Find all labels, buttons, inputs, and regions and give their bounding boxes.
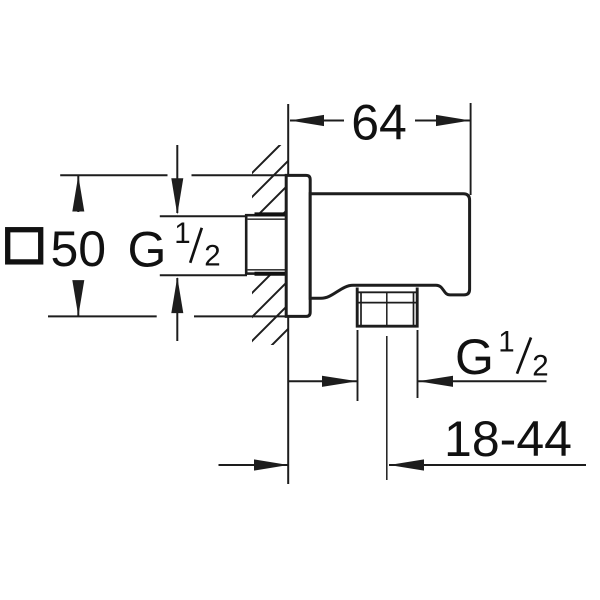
boss dimension line lower: [176, 278, 178, 341]
svg-text:18-44: 18-44: [444, 411, 572, 467]
boss dimension arrow down: [171, 178, 183, 214]
threaded boss (G 1/2 side connector): [246, 214, 288, 273]
svg-text:1: 1: [174, 217, 190, 250]
svg-text:G: G: [128, 221, 167, 277]
label G 1/2 left: [128, 217, 221, 277]
boss dimension top extension: [160, 215, 247, 217]
svg-text:2: 2: [204, 239, 220, 272]
dimension 64 arrow left: [290, 115, 324, 126]
dimension 18-44 arrow left: [254, 459, 288, 470]
G 1/2 outlet arrow left: [322, 376, 357, 387]
fitting body: [310, 194, 469, 298]
wall face line: [287, 104, 289, 484]
svg-text:G: G: [455, 329, 494, 385]
svg-text:64: 64: [351, 95, 407, 151]
boss dimension bottom extension: [160, 274, 247, 276]
G 1/2 outlet dimension line: [288, 380, 546, 382]
wall hatching: [245, 135, 290, 396]
escutcheon flange: [286, 175, 310, 316]
svg-text:50: 50: [51, 221, 107, 277]
svg-text:1: 1: [498, 325, 514, 358]
dimension 50 bottom extension line: [48, 315, 286, 317]
centerline of outlet: [386, 293, 388, 480]
extension line below nut right: [417, 330, 419, 398]
svg-text:2: 2: [532, 349, 548, 382]
extension line below nut left: [357, 330, 359, 401]
G 1/2 outlet arrow right: [418, 376, 453, 387]
dimension 50 arrow up: [72, 176, 84, 212]
dimension 18-44 line: [219, 464, 587, 466]
square symbol: [8, 230, 41, 262]
outlet nut: [357, 288, 417, 327]
dimension 64 extension right: [470, 103, 472, 195]
dimension 64 line: [290, 120, 470, 122]
dimension 50 arrow down: [72, 280, 84, 316]
boss dimension arrow up: [171, 277, 183, 313]
dimension 50 line: [77, 176, 79, 316]
boss dimension line upper: [176, 145, 178, 213]
label G 1/2 right: [455, 325, 549, 385]
dimension 18-44 arrow right: [389, 459, 424, 470]
dimension 50 top extension line: [60, 174, 286, 176]
dimension 64 arrow right: [436, 115, 470, 126]
